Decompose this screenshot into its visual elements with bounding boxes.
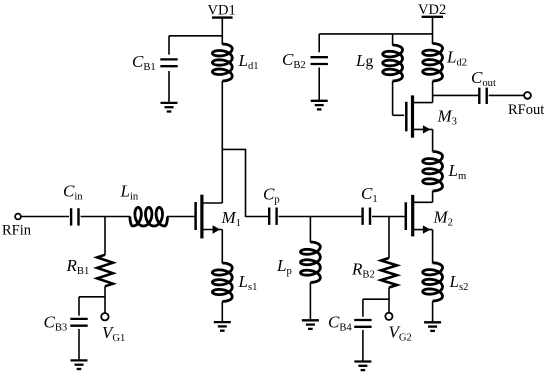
transistor M3	[406, 95, 457, 137]
supply VD1	[208, 3, 236, 19]
wire	[221, 19, 223, 45]
wire	[246, 216, 269, 218]
wire	[169, 35, 222, 37]
ground	[311, 101, 328, 110]
terminal VG2	[385, 313, 392, 320]
wire	[167, 216, 194, 218]
svg-text:RFin: RFin	[2, 223, 32, 239]
capacitor Cin	[63, 182, 83, 226]
wire	[363, 298, 389, 300]
capacitor C1	[361, 184, 378, 225]
wire	[432, 81, 434, 95]
wire	[432, 230, 434, 264]
wire	[21, 216, 69, 218]
wire	[432, 129, 434, 151]
wire	[319, 33, 432, 35]
wire	[372, 216, 405, 218]
resistor RB2	[351, 217, 397, 288]
wire	[393, 114, 405, 116]
wire	[221, 81, 223, 203]
resistor RB1	[66, 217, 113, 287]
terminal VG1	[101, 313, 108, 320]
transistor M2	[406, 195, 453, 237]
svg-text:Lg: Lg	[355, 51, 373, 70]
capacitor CB2	[282, 34, 328, 101]
inductor Lm	[423, 152, 467, 192]
inductor Lin	[120, 182, 168, 227]
wire	[432, 95, 434, 102]
label VG2	[389, 323, 412, 344]
wire	[432, 191, 434, 202]
terminal RFout	[508, 92, 544, 118]
inductor Ld2	[423, 44, 467, 82]
wire	[432, 18, 434, 44]
capacitor CB3	[44, 297, 88, 361]
wire	[79, 296, 105, 298]
wire	[222, 149, 245, 217]
wire	[81, 216, 131, 218]
label VG1	[102, 323, 125, 344]
wire	[279, 216, 362, 218]
capacitor Cout	[471, 68, 496, 104]
ground	[71, 360, 88, 369]
supply VD2	[418, 2, 446, 18]
wire	[221, 230, 223, 264]
inductor Lp	[276, 217, 320, 321]
ground	[424, 322, 441, 331]
capacitor CB1	[132, 36, 178, 103]
transistor M1	[196, 195, 241, 239]
wire	[433, 94, 479, 96]
svg-text:VD1: VD1	[208, 3, 236, 19]
inductor Lg	[355, 34, 403, 115]
capacitor CB4	[328, 299, 372, 361]
ground	[302, 320, 319, 329]
svg-text:RFout: RFout	[508, 102, 544, 118]
ground	[354, 362, 371, 371]
ground	[161, 103, 178, 112]
wire	[221, 302, 223, 323]
wire	[104, 286, 106, 313]
wire	[388, 288, 390, 313]
terminal RFin	[2, 214, 32, 239]
inductor Ls1	[212, 263, 257, 302]
wire	[432, 301, 434, 322]
ground	[214, 322, 231, 331]
inductor Ls2	[423, 263, 469, 301]
wire	[489, 94, 525, 96]
inductor Ld1	[212, 44, 258, 81]
capacitor Cp	[263, 185, 280, 225]
